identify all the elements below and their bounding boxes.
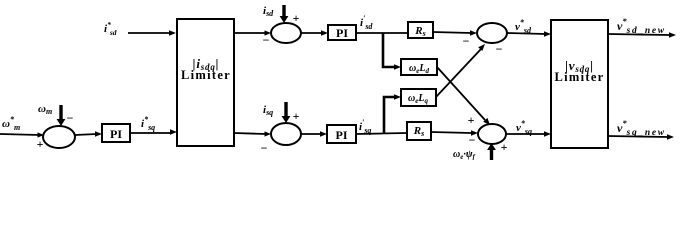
svg-text:+: + [501, 140, 508, 154]
svg-text:PI: PI [336, 26, 348, 40]
svg-text:Limiter: Limiter [181, 68, 231, 82]
svg-text:−: − [496, 42, 503, 56]
svg-text:ωe·ψf: ωe·ψf [453, 149, 476, 160]
svg-text:+: + [293, 109, 300, 123]
svg-text:−: − [261, 141, 268, 155]
svg-text:−: − [469, 133, 476, 147]
svg-text:Limiter: Limiter [554, 70, 604, 84]
svg-text:PI: PI [110, 127, 122, 141]
svg-text:+: + [37, 137, 44, 151]
svg-text:−: − [67, 111, 74, 125]
svg-text:+: + [468, 113, 475, 127]
svg-text:PI: PI [336, 128, 348, 142]
svg-text:−: − [463, 34, 470, 48]
svg-text:+: + [293, 11, 300, 25]
svg-text:−: − [263, 33, 270, 47]
